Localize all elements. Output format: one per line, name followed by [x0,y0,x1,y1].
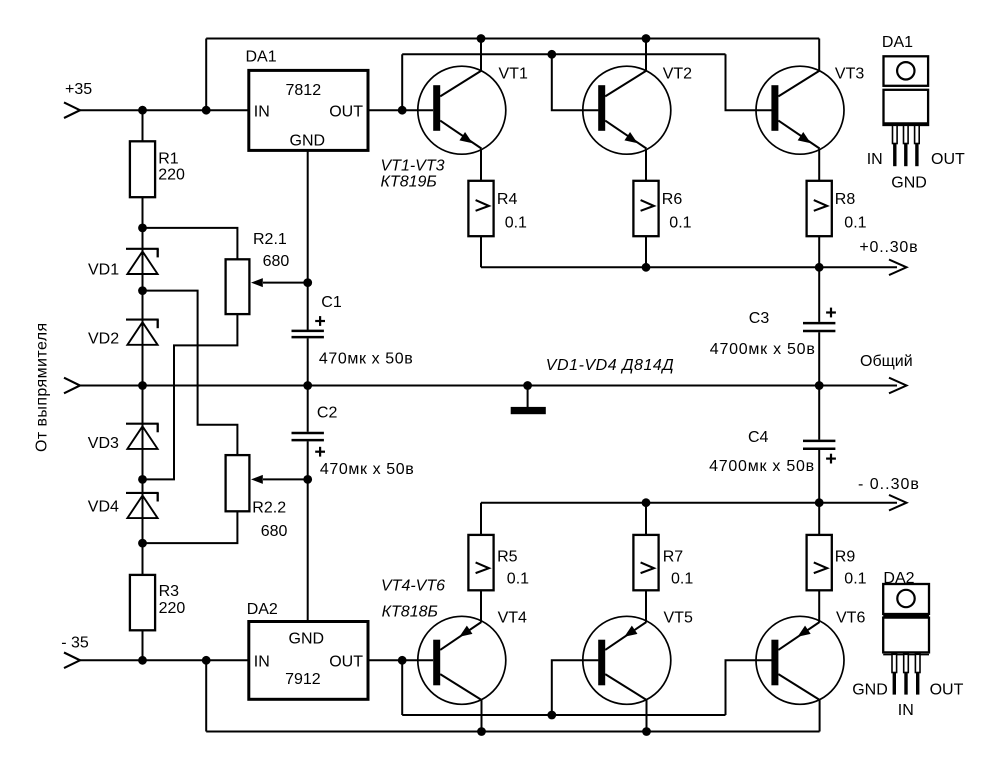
node R2.2 wiper / gnd column [303,475,312,484]
output arrow +0..30v [889,260,907,276]
wire R4 to +0..30v rail [480,236,482,267]
wire bottom base rail [402,714,725,716]
pin label OUT package DA1 [931,151,965,168]
label VT1-VT3 КТ819Б [381,157,445,190]
svg-text:DA2: DA2 [883,570,914,587]
svg-text:VT3: VT3 [835,66,864,83]
resistor R5 [468,535,493,590]
transistor VT5 [583,616,671,704]
svg-text:7912: 7912 [285,671,321,688]
svg-text:R9: R9 [835,549,856,566]
svg-text:R1: R1 [158,151,179,168]
node VT1 collector / rail [477,34,486,43]
wire VT2 emitter [645,149,647,181]
op-amp DA2 box (7912 regulator) [249,622,368,700]
pin label IN package DA2 [898,702,914,719]
wire -0..30v rail [481,502,897,504]
svg-text:VD2: VD2 [88,331,119,348]
input arrow common [64,378,80,394]
wire VT6 collector [819,700,821,732]
node VT4 collector / rail [477,727,486,736]
svg-text:C1: C1 [321,294,342,311]
wire +35 input line [80,109,249,111]
wire VT6 emitter [818,590,820,622]
node chain / common rail [138,381,147,390]
svg-text:C3: C3 [749,310,770,327]
node R2.1 wiper / gnd column [303,278,312,287]
wiper arrow R2.2 [251,475,263,484]
svg-text:470мк x 50в: 470мк x 50в [320,461,414,478]
transistor VT4 [418,616,506,704]
label VT5 [664,610,693,627]
pin label OUT DA2 [329,653,363,670]
svg-text:VD3: VD3 [88,435,119,452]
svg-text:VD4: VD4 [88,499,119,516]
label DA2 package [883,570,914,587]
node +35 / top-rail branch [202,106,211,115]
svg-text:- 35: - 35 [61,635,89,652]
node C3 / common rail [815,381,824,390]
transistor VT2 [583,66,671,154]
potentiometer R2.1 [226,259,250,314]
label DA1 package [882,34,913,51]
wire zener chain lower [142,386,144,575]
wire R3 bottom lead [142,630,144,660]
svg-text:От выпрямителя: От выпрямителя [34,322,51,452]
svg-text:GND: GND [290,132,326,149]
wire C3 bottom lead [818,332,820,385]
resistor R8 [807,181,832,236]
label R2.1 [253,231,289,270]
wire VT1 collector [480,39,482,71]
label R1 [158,151,185,184]
wire VT5 collector [646,700,648,732]
input arrow +35 [64,102,80,118]
svg-text:DA1: DA1 [246,48,277,65]
wire VT4 emitter [480,590,482,622]
svg-text:220: 220 [158,167,185,184]
svg-text:4700мк x 50в: 4700мк x 50в [710,341,816,358]
pin label OUT package DA2 [930,681,964,698]
pin label GND package DA1 [891,174,927,191]
wire VT2 collector [645,39,647,71]
node ground symbol / common rail [523,381,532,390]
svg-text:C2: C2 [317,405,338,422]
label VD2 [88,331,119,348]
svg-text:R4: R4 [497,191,518,208]
wire R9 top lead [818,503,820,535]
wire riser to collector rail [205,39,207,111]
capacitor C2 [292,433,326,457]
wire C1 to common rail [307,338,309,385]
node DA1 out / base rail [398,106,407,115]
svg-text:+35: +35 [65,81,92,98]
wire DA1 gnd pin [307,150,309,330]
node R9 C4 / -0..30v rail [815,498,824,507]
label R5 [497,549,529,588]
wire ground stub [527,386,529,409]
node R7 / -0..30v rail [642,498,651,507]
zener diode VD3 [126,424,159,449]
svg-text:+0..30в: +0..30в [859,239,918,256]
pin label IN DA1 [254,103,270,120]
label R2.2 [252,500,287,540]
label VD3 [88,435,119,452]
wire +0..30v rail [481,266,897,268]
svg-text:R5: R5 [497,549,518,566]
wire VT6 base drop [726,660,772,715]
wiper arrow R2.1 [251,278,263,287]
svg-text:0.1: 0.1 [507,570,529,587]
label 7912 [285,671,321,688]
input arrow -35 [64,653,80,669]
resistor R9 [807,535,832,590]
svg-text:VD1-VD4 Д814Д: VD1-VD4 Д814Д [546,357,674,374]
wire DA1 out [368,109,433,111]
svg-text:Общий: Общий [860,353,913,370]
label C1 [319,294,413,368]
svg-text:0.1: 0.1 [669,215,691,232]
node VT2 base tap [547,50,556,59]
wire riser to bottom collector rail [205,660,207,731]
wire VT1 emitter [480,149,482,181]
label R9 [835,549,867,588]
svg-text:7812: 7812 [286,82,322,99]
node R6 / +0..30v rail [642,263,651,272]
node VT2 collector / rail [642,34,651,43]
svg-text:R2.1: R2.1 [253,231,287,248]
node -35 / bottom-rail branch [202,656,211,665]
svg-text:VT4: VT4 [498,610,527,627]
svg-text:0.1: 0.1 [844,215,866,232]
wire R1 bottom lead / zener chain upper [142,197,144,385]
node R1 / R2.1 branch [138,224,147,233]
op-amp DA1 box (7812 regulator) [249,70,368,150]
svg-text:- 0..30в: - 0..30в [858,476,920,493]
pin label GND DA2 [289,631,325,648]
label DA2 [247,601,278,618]
wire R2.1 bottom to VD3-VD4 node [143,314,238,479]
wire VT3 emitter [818,149,820,181]
wire DA2 out [368,659,433,661]
svg-text:R3: R3 [159,583,180,600]
label R4 [497,191,527,231]
package drawing DA1 (TO-220) [884,56,929,166]
label VD1-VD4 Д814Д [546,357,674,374]
svg-text:VD1: VD1 [88,261,119,278]
svg-text:GND: GND [891,174,927,191]
transistor VT3 [756,66,844,154]
wire top collector rail [206,38,819,40]
node VD4 / R2.2 lower branch [138,539,147,548]
svg-text:VT6: VT6 [836,610,865,627]
label C2 [317,405,414,479]
svg-text:GND: GND [289,631,325,648]
svg-text:VT1-VT3: VT1-VT3 [381,157,445,174]
wire R8 to +0..30v rail [818,236,820,267]
zener diode VD1 [126,249,159,274]
output arrow common [889,378,907,394]
node R3 / -35 line [138,656,147,665]
svg-text:IN: IN [254,653,270,670]
wire VT5 emitter [645,590,647,622]
label VT6 [836,610,865,627]
wire VT3 collector [818,39,820,71]
transistor VT1 [418,66,506,154]
svg-text:4700мк x 50в: 4700мк x 50в [709,458,815,475]
svg-text:OUT: OUT [930,681,964,698]
label C3 [710,310,816,358]
wire common rail [80,385,897,387]
label 7812 [286,82,322,99]
resistor R1 [130,141,155,197]
label +0..30в [859,239,918,256]
svg-text:DA2: DA2 [247,601,278,618]
svg-text:VT1: VT1 [499,66,528,83]
node gnd column / common rail [303,381,312,390]
label VT2 [663,66,692,83]
svg-text:КТ818Б: КТ818Б [382,604,438,621]
node VD1-VD2 / R2.2 branch [138,286,147,295]
transistor VT6 [756,616,844,704]
label VT4 [498,610,527,627]
pin label OUT DA1 [329,103,363,120]
resistor R4 [468,181,493,236]
capacitor C4 [803,441,836,464]
resistor R7 [633,535,658,590]
label R8 [835,191,867,231]
wire bottom base rail riser [401,660,403,715]
label -35 [61,635,89,652]
node VD3-VD4 / R2.1 lower [138,475,147,484]
label +35 [65,81,92,98]
svg-text:680: 680 [261,523,288,540]
wire VT5 base drop [552,660,599,715]
svg-text:470мк x 50в: 470мк x 50в [319,351,413,368]
wire top base rail [402,53,725,55]
wire R2.2 wiper [263,478,308,480]
pin label IN DA2 [254,653,270,670]
pin label GND package DA2 [852,681,888,698]
wire C3 top lead [818,267,820,322]
svg-text:0.1: 0.1 [505,215,527,232]
capacitor C3 [803,308,836,331]
output arrow -0..30v [889,495,907,511]
svg-text:680: 680 [263,253,290,270]
resistor R6 [633,181,658,236]
svg-text:220: 220 [159,600,186,617]
wire -35 input line [80,659,249,661]
svg-text:КТ819Б: КТ819Б [381,174,437,191]
wire bottom collector rail [206,731,819,733]
svg-text:OUT: OUT [329,653,363,670]
label R3 [159,583,186,617]
wire R2.1 wiper [263,282,308,284]
svg-text:OUT: OUT [329,103,363,120]
pin label IN package DA1 [867,151,883,168]
wire R2.2 bottom to VD4 node [143,511,238,543]
label -0..30в [858,476,920,493]
svg-text:VT4-VT6: VT4-VT6 [381,578,445,595]
wire C2 to DA2 gnd pin [307,441,309,621]
wire R1 top lead [142,110,144,141]
label VD4 [88,499,119,516]
node +35 / R1 top [138,106,147,115]
wire base rail riser [401,54,403,110]
svg-text:GND: GND [852,681,888,698]
label VT4-VT6 КТ818Б [381,578,445,621]
node DA2 out / base rail [398,656,407,665]
ground symbol [511,407,546,414]
wire C4 top lead [818,386,820,440]
svg-text:R2.2: R2.2 [252,500,286,517]
node VT5 collector / rail [642,727,651,736]
svg-text:IN: IN [867,151,883,168]
label R6 [662,191,692,231]
node VT5 base tap [547,711,556,720]
svg-text:IN: IN [898,702,914,719]
svg-text:OUT: OUT [931,151,965,168]
svg-text:VT2: VT2 [663,66,692,83]
svg-text:R8: R8 [835,191,856,208]
svg-text:C4: C4 [748,429,769,446]
svg-text:0.1: 0.1 [671,570,693,587]
node R8 C3 / +0..30v rail [815,263,824,272]
svg-text:IN: IN [254,103,270,120]
label Общий [860,353,913,370]
wire VD1-VD2 node to R2.2 top [143,291,238,456]
label VT1 [499,66,528,83]
wire R7 top lead [645,503,647,535]
pin label GND DA1 [290,132,326,149]
wire VT3 base drop [726,54,772,110]
svg-text:R7: R7 [663,549,684,566]
capacitor C1 [292,316,326,337]
package drawing DA2 (TO-220) [883,584,929,695]
label R7 [663,549,694,588]
wire C4 bottom lead [818,450,820,503]
wire R6 to +0..30v rail [645,236,647,267]
svg-text:R6: R6 [662,191,683,208]
label DA1 [246,48,277,65]
zener diode VD4 [126,493,159,518]
wire R5 top lead [480,503,482,535]
svg-text:0.1: 0.1 [844,570,866,587]
svg-text:DA1: DA1 [882,34,913,51]
wire node to R2.1 top [143,228,238,259]
label VT3 [835,66,864,83]
label C4 [709,429,815,475]
wire common rail to C2 [307,386,309,432]
potentiometer R2.2 [226,455,250,511]
svg-text:VT5: VT5 [664,610,693,627]
label От выпрямителя [34,322,51,452]
resistor R3 [130,575,155,630]
wire VT2 base drop [552,54,599,110]
wire VT4 collector [481,700,483,732]
label VD1 [88,261,119,278]
zener diode VD2 [126,320,159,345]
